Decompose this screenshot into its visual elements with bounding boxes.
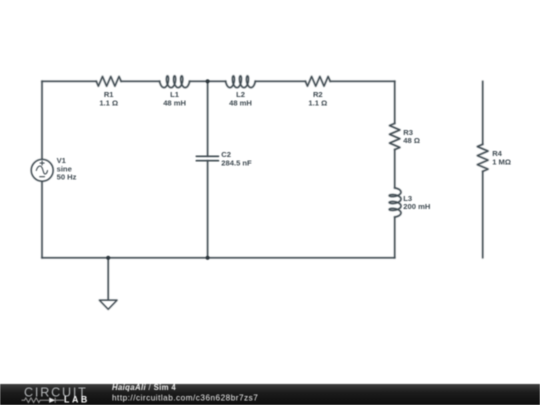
svg-text:1.1 Ω: 1.1 Ω bbox=[308, 99, 327, 108]
wire R2 to top-right corner bbox=[330, 80, 395, 82]
wire L1 to node A bbox=[190, 80, 226, 82]
voltage source V1 bbox=[31, 159, 53, 181]
wire bottom horizontal bbox=[42, 257, 395, 259]
wire C2 branch lower bbox=[207, 161, 209, 258]
label R2 bbox=[308, 90, 327, 107]
svg-text:1.1 Ω: 1.1 Ω bbox=[99, 99, 118, 108]
label R3 bbox=[403, 128, 420, 145]
label L1 bbox=[163, 90, 186, 107]
resistor R3 bbox=[390, 123, 400, 149]
svg-text:HaiqaAli / Sim 4: HaiqaAli / Sim 4 bbox=[112, 384, 176, 392]
svg-text:48 mH: 48 mH bbox=[163, 99, 186, 108]
wire left vertical lower (V1 to bottom wire) bbox=[41, 181, 43, 257]
inductor L2 bbox=[226, 76, 256, 88]
wire R1 to L1 bbox=[121, 80, 160, 82]
label C2 bbox=[221, 150, 252, 167]
svg-text:http://circuitlab.com/c36n628b: http://circuitlab.com/c36n628br7zs7 bbox=[112, 394, 258, 403]
junction dot bottom C2 tap bbox=[206, 256, 210, 260]
label L2 bbox=[229, 90, 252, 107]
wire R3 to L3 bbox=[394, 150, 396, 188]
label V1 bbox=[57, 156, 77, 182]
soft halo underlay (decorative) bbox=[31, 76, 488, 309]
wire right branch top bbox=[394, 81, 396, 123]
wire left vertical upper (V1 to top wire) bbox=[41, 81, 43, 159]
resistor R4 bbox=[477, 144, 488, 171]
footer bar bbox=[0, 384, 540, 405]
wire ground stem bbox=[107, 258, 109, 300]
wire top-left horizontal segment bbox=[42, 80, 96, 82]
svg-text:48 mH: 48 mH bbox=[229, 99, 252, 108]
ground bbox=[100, 300, 117, 309]
node A junction dot (top, C2 tap) bbox=[206, 79, 210, 83]
logo diode triangle bbox=[49, 398, 55, 403]
resistor R1 bbox=[96, 77, 121, 87]
svg-text:48 Ω: 48 Ω bbox=[403, 136, 420, 145]
main stroke layer bbox=[31, 76, 488, 309]
svg-text:1 MΩ: 1 MΩ bbox=[492, 158, 511, 167]
logo resistor-diode symbol bbox=[22, 398, 65, 403]
inductor L3 bbox=[389, 188, 401, 217]
capacitor C2 bbox=[196, 156, 218, 160]
wire C2 branch upper bbox=[207, 81, 209, 156]
label R1 bbox=[99, 90, 118, 107]
wire L3 to bottom-right corner bbox=[394, 217, 396, 258]
svg-text:284.5 nF: 284.5 nF bbox=[221, 158, 252, 167]
inductor L1 bbox=[160, 76, 190, 88]
junction dot ground tap bbox=[106, 256, 110, 260]
wire L2 to R2 bbox=[255, 80, 305, 82]
svg-text:200 mH: 200 mH bbox=[403, 202, 430, 211]
resistor R2 bbox=[305, 77, 330, 87]
svg-text:50 Hz: 50 Hz bbox=[57, 173, 77, 182]
label R4 bbox=[492, 149, 511, 166]
svg-text:LAB: LAB bbox=[64, 394, 90, 404]
wire R4 upper bbox=[482, 81, 484, 144]
label L3 bbox=[403, 194, 430, 211]
wire R4 lower bbox=[482, 171, 484, 257]
